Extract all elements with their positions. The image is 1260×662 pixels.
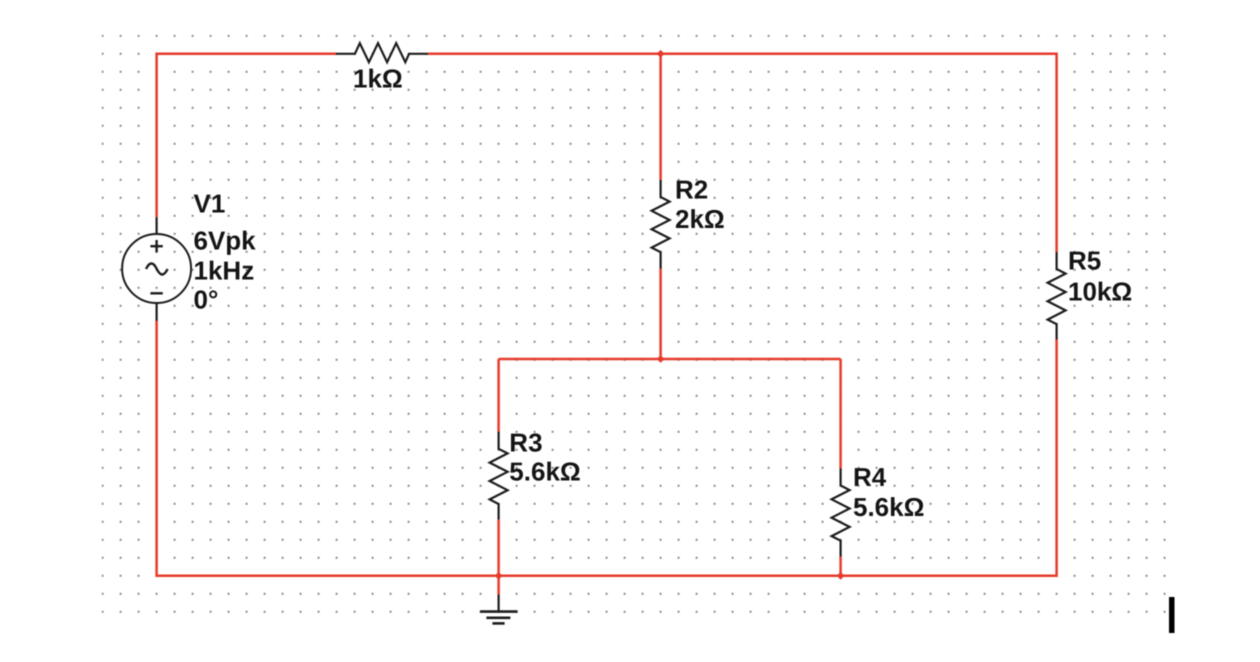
svg-text:R5: R5 bbox=[1068, 246, 1101, 276]
svg-text:1kΩ: 1kΩ bbox=[353, 63, 403, 93]
svg-text:1kHz: 1kHz bbox=[194, 256, 255, 286]
svg-text:2kΩ: 2kΩ bbox=[675, 204, 725, 234]
svg-text:6Vpk: 6Vpk bbox=[194, 225, 257, 255]
svg-text:10kΩ: 10kΩ bbox=[1068, 277, 1132, 307]
svg-text:V1: V1 bbox=[194, 189, 226, 219]
svg-text:5.6kΩ: 5.6kΩ bbox=[509, 456, 580, 486]
svg-text:R3: R3 bbox=[509, 428, 542, 458]
svg-text:0°: 0° bbox=[194, 285, 219, 315]
svg-text:5.6kΩ: 5.6kΩ bbox=[853, 492, 924, 522]
svg-text:R4: R4 bbox=[853, 462, 887, 492]
svg-text:R2: R2 bbox=[675, 174, 708, 204]
